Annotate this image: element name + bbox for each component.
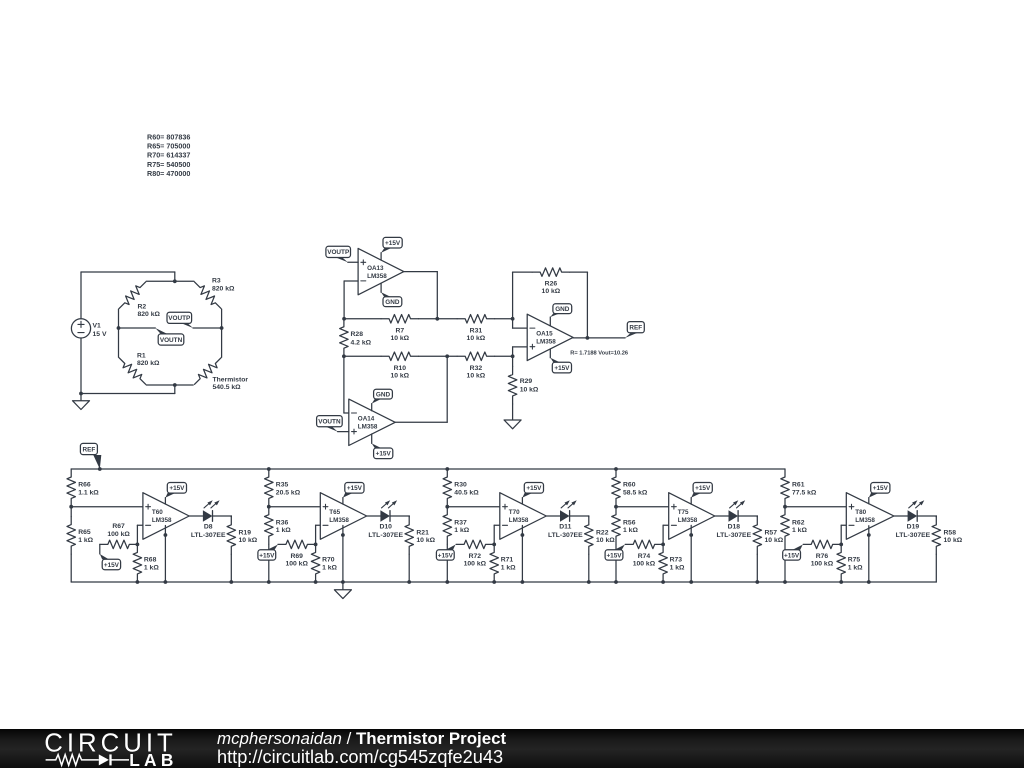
svg-text:Thermistor: Thermistor — [213, 377, 249, 384]
svg-text:100 kΩ: 100 kΩ — [107, 531, 130, 538]
node rail R71 — [492, 580, 496, 584]
wire T80 V- pin to rail — [867, 526, 871, 582]
resistor R69 — [278, 540, 315, 567]
node bridge right — [220, 326, 224, 330]
wire OA14 output — [395, 356, 447, 422]
svg-text:100 kΩ: 100 kΩ — [285, 561, 308, 568]
wire OA13 minus input feedback — [344, 281, 358, 319]
flag +15V T70 — [522, 483, 543, 505]
svg-text:+15V: +15V — [104, 562, 120, 569]
footer url — [217, 747, 503, 768]
wire T65 output — [367, 515, 381, 517]
note text R values — [147, 132, 190, 178]
resistor R61 — [781, 469, 817, 506]
wire T70 V- pin to rail — [521, 525, 525, 582]
svg-text:R70: R70 — [322, 557, 335, 564]
svg-text:820 kΩ: 820 kΩ — [212, 285, 235, 292]
svg-text:R67: R67 — [112, 523, 125, 530]
resistor R7 — [344, 315, 437, 342]
resistor R58 — [932, 516, 963, 582]
svg-text:R80= 470000: R80= 470000 — [147, 169, 190, 178]
wire T75 plus input — [616, 506, 669, 508]
logo diode symbol — [99, 754, 129, 765]
svg-text:10 kΩ: 10 kΩ — [765, 537, 784, 544]
svg-text:+15V: +15V — [554, 365, 570, 372]
node OA15 output — [586, 336, 590, 340]
wire T75 output — [715, 515, 729, 517]
wire D11 cathode — [570, 515, 589, 517]
svg-text:R19: R19 — [239, 529, 252, 536]
node OA15 plus junction — [511, 354, 515, 358]
node T70 minus junction — [492, 543, 496, 547]
svg-text:REF: REF — [83, 446, 96, 453]
LED D19 — [896, 500, 931, 539]
svg-text:R1: R1 — [137, 352, 146, 359]
op-amp OA14 — [349, 399, 395, 445]
node rail bottom R62 — [783, 580, 787, 584]
svg-text:R37: R37 — [454, 519, 467, 526]
svg-text:LM358: LM358 — [329, 517, 349, 524]
wire T65 plus input — [269, 506, 321, 508]
svg-text:20.5 kΩ: 20.5 kΩ — [276, 489, 301, 496]
svg-text:R30: R30 — [454, 482, 467, 489]
LED D18 — [716, 500, 751, 539]
flag REF output — [625, 322, 644, 338]
node rail R35 — [267, 467, 271, 471]
svg-text:R72: R72 — [469, 553, 482, 560]
resistor R21 — [405, 516, 436, 582]
svg-text:T65: T65 — [329, 509, 340, 516]
svg-text:R65: R65 — [78, 529, 91, 536]
svg-text:LM358: LM358 — [855, 517, 875, 524]
svg-text:+15V: +15V — [873, 485, 889, 492]
flag +15V R67 — [100, 544, 121, 569]
node OA14 output junction — [445, 354, 449, 358]
svg-text:D19: D19 — [907, 524, 920, 531]
resistor R74 — [625, 540, 662, 567]
wire V1 top to bridge top — [81, 272, 175, 319]
node rail T80 pin — [867, 580, 871, 584]
svg-text:+15V: +15V — [169, 485, 185, 492]
svg-text:R74: R74 — [638, 553, 651, 560]
flag +15V OA15 — [550, 349, 571, 373]
svg-text:LTL-307EE: LTL-307EE — [716, 532, 751, 539]
flag VOUTP to OA13 — [326, 246, 351, 262]
wire bridge top segment — [146, 280, 194, 282]
node rail R30 — [445, 467, 449, 471]
svg-text:R60: R60 — [623, 482, 636, 489]
wire D8 cathode — [213, 515, 232, 517]
svg-text:+15V: +15V — [784, 552, 800, 559]
svg-text:VOUTN: VOUTN — [160, 337, 183, 344]
op-amp T60 — [143, 493, 189, 540]
svg-text:OA13: OA13 — [367, 265, 384, 272]
svg-text:1 kΩ: 1 kΩ — [623, 527, 638, 534]
svg-text:+15V: +15V — [376, 451, 392, 458]
wire T60 minus input — [137, 525, 143, 544]
flag VOUTN to OA14 — [317, 416, 343, 432]
wire T60 output — [189, 515, 203, 517]
resistor R37 — [443, 507, 470, 582]
resistor R65 — [67, 507, 94, 582]
voltage source V1 — [71, 319, 107, 338]
svg-text:+15V: +15V — [438, 552, 454, 559]
node bridge bottom — [173, 383, 177, 387]
svg-text:D8: D8 — [204, 524, 213, 531]
flag +15V R72 — [436, 545, 455, 561]
flag +15V T60 — [165, 483, 186, 505]
svg-text:LM358: LM358 — [678, 517, 698, 524]
svg-text:100 kΩ: 100 kΩ — [633, 561, 656, 568]
op-amp T80 — [846, 493, 894, 540]
svg-text:40.5 kΩ: 40.5 kΩ — [454, 489, 479, 496]
wire T70 plus input — [447, 506, 500, 508]
resistor R67 — [100, 523, 137, 549]
svg-text:VOUTN: VOUTN — [318, 419, 341, 426]
wire OA14 plus input — [338, 431, 349, 433]
node bridge left — [117, 326, 121, 330]
wire T65 minus input — [316, 525, 321, 544]
wire feedback down to output — [586, 272, 588, 338]
wire T75 minus input — [663, 525, 669, 544]
svg-text:REF: REF — [629, 325, 642, 332]
svg-text:R= 1.7188 Vout=10.26: R= 1.7188 Vout=10.26 — [570, 351, 628, 357]
flag GND OA13 — [381, 283, 402, 306]
resistor R35 — [265, 469, 301, 506]
svg-text:T70: T70 — [509, 509, 520, 516]
thermistor RT — [192, 328, 249, 391]
svg-text:R36: R36 — [276, 519, 289, 526]
svg-text:R10: R10 — [394, 365, 407, 372]
svg-text:GND: GND — [385, 299, 400, 306]
svg-text:R3: R3 — [212, 278, 221, 285]
svg-text:R58: R58 — [944, 529, 957, 536]
svg-text:R66: R66 — [78, 482, 91, 489]
resistor R31 — [437, 315, 512, 342]
svg-text:LTL-307EE: LTL-307EE — [896, 532, 931, 539]
node rail bottom R37 — [445, 580, 449, 584]
node rail R60 — [614, 467, 618, 471]
LED D11 — [548, 500, 583, 539]
node rail T70 pin — [521, 580, 525, 584]
svg-text:R7: R7 — [395, 328, 404, 335]
svg-text:R21: R21 — [416, 529, 429, 536]
svg-text:58.5 kΩ: 58.5 kΩ — [623, 489, 648, 496]
op-amp T65 — [320, 493, 366, 540]
svg-text:R56: R56 — [623, 519, 636, 526]
wire T60 plus input — [71, 506, 143, 508]
svg-text:R29: R29 — [520, 378, 533, 385]
wire OA15 minus branch — [513, 319, 528, 328]
node rail R19 — [229, 580, 233, 584]
svg-text:LM358: LM358 — [358, 424, 378, 431]
flag VOUTP — [167, 312, 193, 328]
svg-text:+15V: +15V — [347, 485, 363, 492]
svg-text:10 kΩ: 10 kΩ — [416, 537, 435, 544]
svg-text:LM358: LM358 — [367, 273, 387, 280]
svg-text:R61: R61 — [792, 482, 805, 489]
svg-text:820 kΩ: 820 kΩ — [137, 360, 160, 367]
wire T80 plus input — [785, 506, 846, 508]
svg-text:10 kΩ: 10 kΩ — [239, 537, 258, 544]
resistor R68 — [133, 544, 159, 581]
svg-text:+15V: +15V — [259, 552, 275, 559]
resistor R22 — [585, 516, 616, 582]
svg-text:R31: R31 — [470, 328, 483, 335]
svg-text:R69: R69 — [290, 553, 303, 560]
ground bottom rail — [334, 582, 351, 599]
svg-text:LTL-307EE: LTL-307EE — [368, 532, 403, 539]
svg-text:GND: GND — [555, 306, 570, 313]
wire feedback up — [512, 272, 514, 319]
flag +15V T75 — [691, 483, 712, 505]
svg-text:R76: R76 — [816, 553, 829, 560]
node T75 plus — [614, 505, 618, 509]
flag +15V R74 — [605, 545, 625, 561]
svg-text:1 kΩ: 1 kΩ — [670, 564, 685, 571]
node R28 bottom — [342, 354, 346, 358]
flag +15V R76 — [783, 545, 803, 561]
flag GND OA14 — [372, 389, 393, 411]
svg-text:1 kΩ: 1 kΩ — [322, 564, 337, 571]
svg-text:1 kΩ: 1 kΩ — [792, 527, 807, 534]
LED D8 — [191, 500, 226, 539]
resistor R36 — [265, 507, 292, 582]
svg-text:LTL-307EE: LTL-307EE — [548, 532, 583, 539]
svg-text:10 kΩ: 10 kΩ — [390, 335, 409, 342]
svg-text:VOUTP: VOUTP — [168, 315, 191, 322]
node R28 top — [342, 317, 346, 321]
wire D10 cathode — [390, 515, 409, 517]
resistor R56 — [612, 507, 639, 582]
wire bridge mid right VOUTP — [193, 327, 222, 329]
wire T80 minus input — [841, 525, 846, 544]
node T70 plus — [445, 505, 449, 509]
svg-text:1 kΩ: 1 kΩ — [454, 527, 469, 534]
node T60 plus — [69, 505, 73, 509]
resistor R2 — [116, 279, 160, 328]
wire OA15 output — [573, 337, 625, 339]
resistor R60 — [612, 469, 648, 506]
wire OA13 plus input — [348, 261, 358, 263]
flag +15V OA13 — [381, 237, 402, 260]
LED D10 — [368, 500, 403, 539]
node rail T65 pin — [341, 580, 345, 584]
svg-text:R70= 614337: R70= 614337 — [147, 151, 190, 160]
logo LAB text — [129, 750, 177, 768]
svg-text:LM358: LM358 — [152, 517, 172, 524]
resistor R3 — [191, 278, 235, 328]
flag +15V T65 — [343, 483, 364, 505]
svg-text:R75= 540500: R75= 540500 — [147, 160, 190, 169]
wire D18 cathode — [738, 515, 757, 517]
node rail bottom R56 — [614, 580, 618, 584]
resistor R72 — [456, 540, 493, 567]
svg-text:820 kΩ: 820 kΩ — [138, 311, 161, 318]
svg-text:LM358: LM358 — [536, 339, 556, 346]
wire T70 minus input — [494, 525, 500, 544]
ground R29 — [504, 420, 521, 429]
wire bottom rail — [71, 581, 936, 583]
resistor R30 — [443, 469, 479, 506]
svg-text:R71: R71 — [501, 557, 514, 564]
svg-text:R28: R28 — [351, 331, 364, 338]
logo CIRCUIT text — [44, 729, 177, 757]
svg-text:R32: R32 — [470, 365, 483, 372]
svg-text:R68: R68 — [144, 557, 157, 564]
footer title — [217, 729, 506, 749]
svg-text:T60: T60 — [152, 509, 163, 516]
node R7 R31 junction — [435, 317, 439, 321]
resistor R26 — [513, 268, 588, 295]
wire bridge bottom to ground rail — [81, 338, 175, 393]
wire D19 cathode — [917, 515, 936, 517]
svg-text:1 kΩ: 1 kΩ — [501, 564, 516, 571]
flag GND OA15 — [550, 304, 571, 326]
svg-text:+15V: +15V — [526, 485, 542, 492]
flag +15V R69 — [258, 545, 278, 561]
svg-text:1 kΩ: 1 kΩ — [848, 564, 863, 571]
svg-text:R65= 705000: R65= 705000 — [147, 141, 190, 150]
svg-text:R57: R57 — [765, 529, 778, 536]
svg-text:LAB: LAB — [129, 750, 177, 768]
svg-text:10 kΩ: 10 kΩ — [467, 335, 486, 342]
resistor R62 — [781, 507, 808, 582]
resistor R29 — [508, 356, 539, 420]
node T60 minus junction — [136, 543, 140, 547]
wire REF top rail — [71, 468, 785, 470]
op-amp T75 — [669, 493, 715, 540]
svg-text:LTL-307EE: LTL-307EE — [191, 532, 226, 539]
resistor R71 — [490, 544, 516, 581]
resistor R70 — [311, 544, 337, 581]
resistor R75 — [837, 544, 863, 581]
node T75 minus junction — [661, 543, 665, 547]
svg-text:1 kΩ: 1 kΩ — [276, 527, 291, 534]
resistor R57 — [753, 516, 784, 582]
resistor R28 — [340, 319, 372, 356]
svg-text:R75: R75 — [848, 557, 861, 564]
svg-text:15 V: 15 V — [93, 331, 107, 338]
node T80 minus junction — [839, 543, 843, 547]
node rail R22 — [587, 580, 591, 584]
svg-text:D18: D18 — [728, 524, 741, 531]
svg-text:GND: GND — [376, 391, 391, 398]
wire OA13 output — [404, 272, 438, 319]
resistor R73 — [659, 544, 685, 581]
svg-text:VOUTP: VOUTP — [327, 249, 350, 256]
node T65 minus junction — [314, 543, 318, 547]
wire bridge bottom segment — [146, 384, 193, 386]
node rail R75 — [839, 580, 843, 584]
svg-text:R73: R73 — [670, 557, 683, 564]
flag REF rail — [80, 443, 101, 469]
svg-text:100 kΩ: 100 kΩ — [811, 561, 834, 568]
logo resistor symbol — [46, 755, 99, 766]
node bridge top — [173, 279, 177, 283]
node OA15 minus junction — [511, 317, 515, 321]
node REF attach — [98, 467, 102, 471]
svg-text:10 kΩ: 10 kΩ — [944, 537, 963, 544]
note R= text — [570, 351, 628, 357]
node V1 minus ground — [79, 392, 83, 396]
svg-text:1 kΩ: 1 kΩ — [144, 564, 159, 571]
node rail R57 — [755, 580, 759, 584]
wire OA14 minus input — [344, 356, 349, 413]
ground bridge — [73, 394, 90, 410]
node rail R70 — [314, 580, 318, 584]
wire T65 V- pin to rail — [341, 525, 345, 582]
svg-text:10 kΩ: 10 kΩ — [390, 373, 409, 380]
resistor R1 — [116, 328, 160, 387]
wire T70 output — [546, 515, 560, 517]
svg-text:R2: R2 — [138, 303, 147, 310]
svg-text:1.1 kΩ: 1.1 kΩ — [78, 489, 99, 496]
resistor R10 — [344, 352, 447, 380]
flag VOUTN — [155, 328, 184, 345]
svg-text:D11: D11 — [559, 524, 571, 531]
flag +15V T80 — [869, 483, 890, 504]
svg-text:R35: R35 — [276, 482, 289, 489]
svg-text:1 kΩ: 1 kΩ — [78, 537, 93, 544]
svg-text:540.5 kΩ: 540.5 kΩ — [213, 384, 242, 391]
flag +15V OA14 — [372, 434, 393, 459]
svg-text:D10: D10 — [379, 524, 392, 531]
node rail R21 — [407, 580, 411, 584]
node T65 plus — [267, 505, 271, 509]
wire T60 V- pin to rail — [164, 525, 168, 582]
node rail R73 — [661, 580, 665, 584]
node rail T75 pin — [689, 580, 693, 584]
svg-text:R22: R22 — [596, 529, 609, 536]
resistor R32 — [447, 352, 512, 380]
svg-text:T75: T75 — [678, 509, 689, 516]
svg-text:OA15: OA15 — [536, 331, 553, 338]
svg-text:77.5 kΩ: 77.5 kΩ — [792, 489, 817, 496]
svg-text:R26: R26 — [545, 281, 558, 288]
wire bridge mid left VOUTN — [119, 327, 156, 329]
svg-text:+15V: +15V — [606, 552, 622, 559]
svg-text:OA14: OA14 — [358, 416, 375, 423]
wire T75 V- pin to rail — [689, 525, 693, 582]
wire OA15 plus branch — [513, 347, 528, 356]
node rail T60 pin — [164, 580, 168, 584]
svg-text:+15V: +15V — [385, 240, 401, 247]
node rail bottom R36 — [267, 580, 271, 584]
op-amp T70 — [500, 493, 547, 540]
svg-text:LM358: LM358 — [509, 517, 529, 524]
resistor R66 — [67, 469, 99, 506]
op-amp OA13 — [358, 248, 404, 294]
resistor R76 — [803, 540, 840, 567]
svg-text:10 kΩ: 10 kΩ — [542, 288, 561, 295]
svg-text:100 kΩ: 100 kΩ — [464, 561, 487, 568]
svg-text:R62: R62 — [792, 519, 805, 526]
resistor R19 — [227, 516, 258, 582]
svg-text:10 kΩ: 10 kΩ — [596, 537, 615, 544]
svg-text:V1: V1 — [93, 323, 102, 330]
svg-text:T80: T80 — [855, 509, 866, 516]
svg-text:+15V: +15V — [695, 485, 711, 492]
op-amp OA15 — [527, 314, 573, 360]
wire T80 output — [894, 515, 908, 517]
node rail R68 — [136, 580, 140, 584]
svg-text:R60= 807836: R60= 807836 — [147, 132, 190, 141]
node T80 plus — [783, 505, 787, 509]
svg-text:10 kΩ: 10 kΩ — [467, 373, 486, 380]
svg-text:4.2 kΩ: 4.2 kΩ — [351, 340, 372, 347]
svg-text:10 kΩ: 10 kΩ — [520, 387, 539, 394]
